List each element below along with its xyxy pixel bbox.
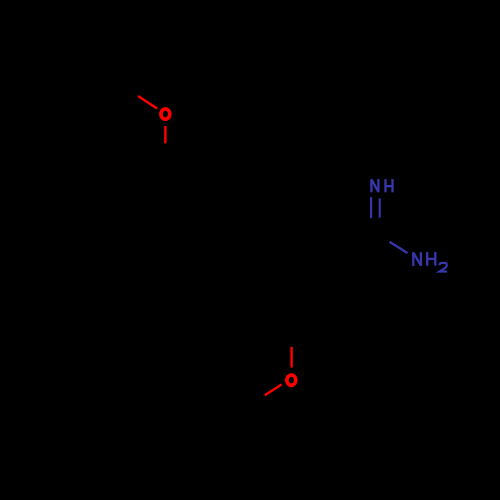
wire bond CH3-O1 red half (top methoxy methyl bond)	[138, 96, 157, 109]
atom label NH2 subscript digit 2	[439, 263, 447, 272]
wire bond O1-C red half (vertical below top O)	[164, 126, 166, 143]
wire bond C-O2 red half (vertical above bottom O)	[290, 347, 292, 368]
wire double bond C7=N1 blue half, outer line	[370, 197, 372, 218]
atom label NH2 (amine nitrogen N2) letter H	[427, 252, 435, 266]
atom O2 (bottom methoxy oxygen)	[287, 375, 296, 385]
wire bond O2-CH3 red half (bottom methoxy methyl bond)	[265, 385, 282, 396]
wire bond C7-N2 blue half (to NH2)	[390, 242, 408, 253]
wire double bond C7=N1 blue half, inner line	[379, 198, 381, 217]
atom O1 (top methoxy oxygen)	[161, 109, 170, 119]
atom label NH (imine nitrogen N1) letter H	[386, 179, 393, 192]
atom label NH (imine nitrogen N1) letter N	[371, 179, 378, 192]
atom label NH2 (amine nitrogen N2) letter N	[413, 252, 421, 266]
